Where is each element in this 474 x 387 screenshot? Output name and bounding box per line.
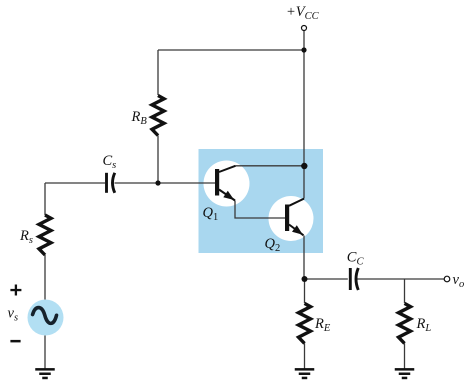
svg-text:vs: vs (8, 306, 19, 324)
svg-text:CC: CC (347, 249, 365, 267)
svg-text:Cs: Cs (103, 153, 117, 171)
svg-text:Rs: Rs (19, 228, 33, 246)
svg-text:vo: vo (453, 272, 465, 290)
svg-text:RL: RL (416, 316, 432, 334)
svg-text:RE: RE (314, 316, 331, 334)
svg-text:RB: RB (131, 109, 148, 127)
svg-text:+VCC: +VCC (286, 4, 320, 22)
